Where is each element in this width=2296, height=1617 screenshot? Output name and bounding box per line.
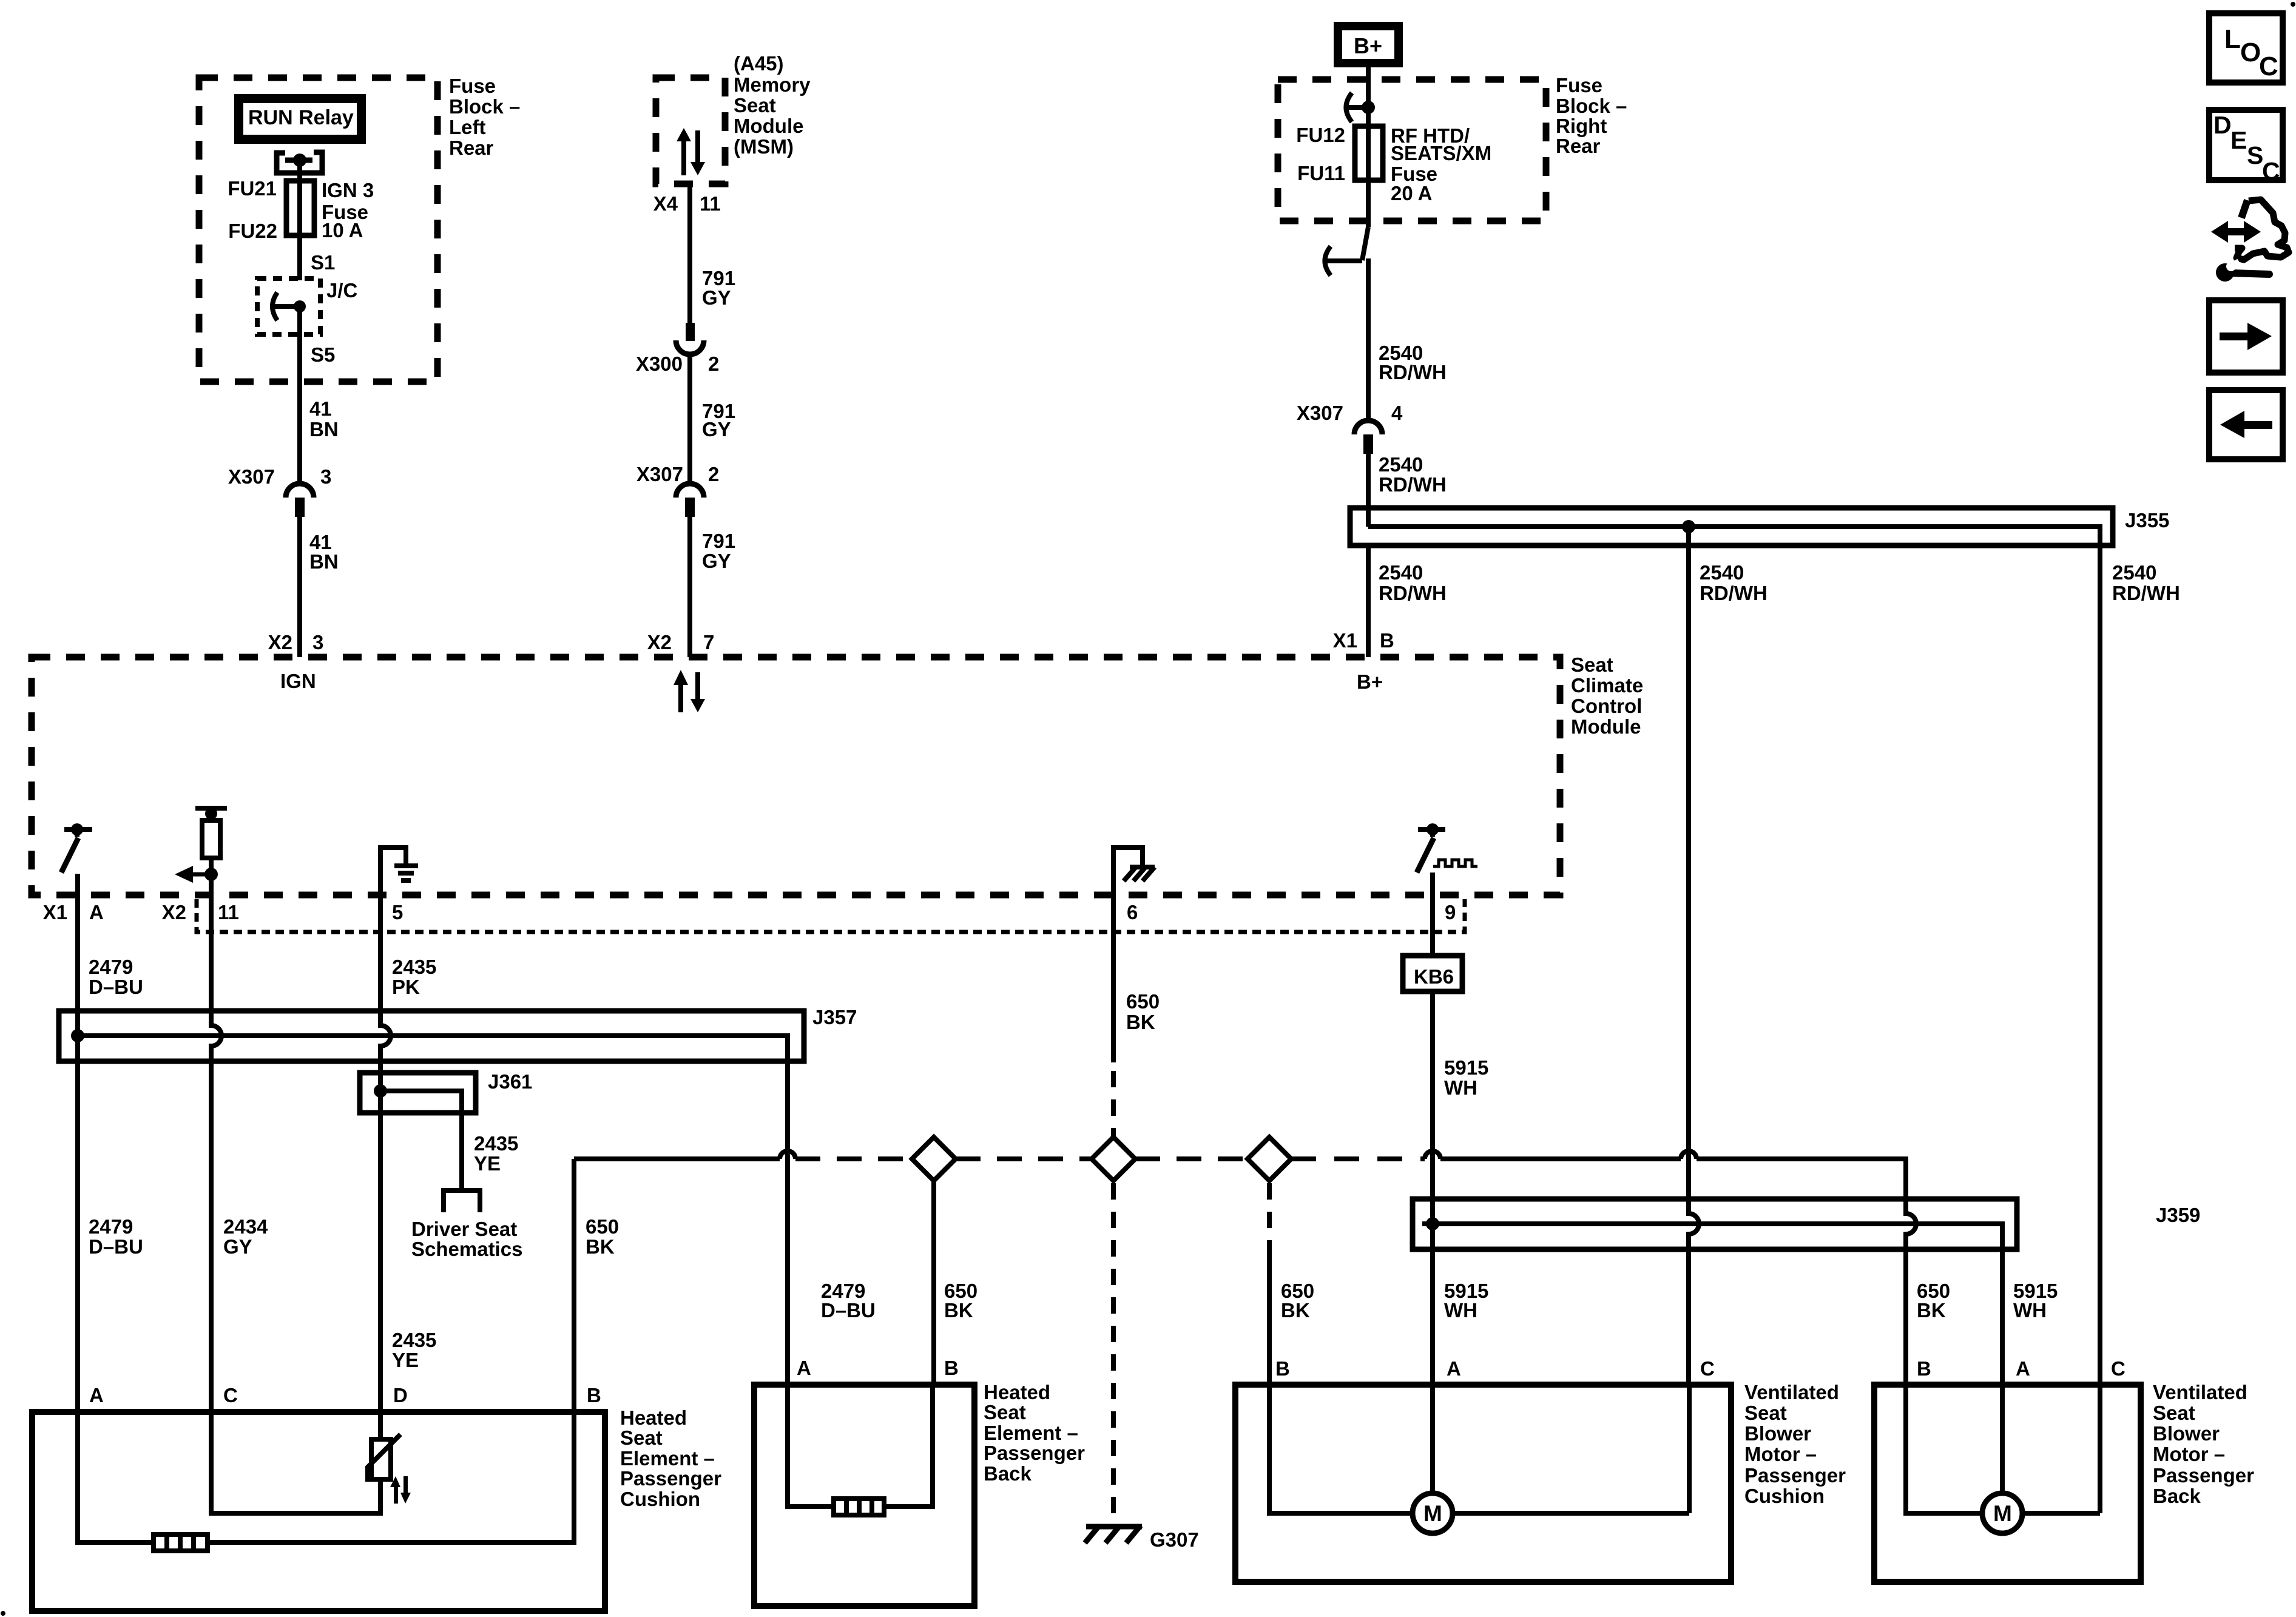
pin letters heated cushion — [89, 1384, 601, 1406]
label 650 BK ventilated cushion — [1281, 1280, 1314, 1322]
thermistor branch wires C to D — [211, 1412, 380, 1513]
svg-text:J357: J357 — [812, 1006, 857, 1028]
label 2434 GY — [223, 1215, 268, 1258]
switch pin X1 A inside module — [61, 823, 92, 873]
heater element passenger cushion — [154, 1534, 208, 1551]
dashed 650 BK line segment 2 — [956, 1156, 1092, 1161]
label 791 GY second — [702, 400, 735, 441]
left arrow icon box — [2209, 390, 2283, 459]
motor M ventilated cushion — [1413, 1493, 1453, 1533]
svg-text:X2: X2 — [647, 631, 672, 653]
ventilated seat blower motor passenger back box — [1874, 1385, 2141, 1582]
junction symbol inside J/C — [272, 292, 306, 320]
svg-text:B+: B+ — [1354, 33, 1382, 58]
svg-text:Back: Back — [984, 1462, 1032, 1485]
up/down arrows at thermistor — [390, 1476, 411, 1504]
label Ventilated Seat Blower Motor Passenger Back — [2153, 1381, 2254, 1507]
svg-text:C: C — [2111, 1357, 2125, 1380]
label 650 BK pin 6 — [1126, 990, 1160, 1033]
page corner mark top right — [2291, 2, 2295, 7]
svg-text:B: B — [944, 1357, 959, 1379]
junction dot J355 — [1682, 520, 1695, 533]
svg-text:2479: 2479 — [89, 956, 133, 978]
label 791 GY first — [702, 267, 735, 309]
wire 650 BK diamond 1 down — [931, 1181, 936, 1385]
svg-text:11: 11 — [700, 192, 721, 215]
svg-text:KB6: KB6 — [1414, 965, 1454, 988]
svg-text:WH: WH — [1444, 1299, 1477, 1322]
svg-text:Control: Control — [1571, 695, 1642, 717]
svg-text:Rear: Rear — [1556, 135, 1601, 157]
label 2540 RD/WH upper — [1379, 342, 1447, 383]
label X1 A bottom pin — [43, 901, 104, 923]
svg-text:Left: Left — [449, 116, 486, 138]
svg-text:D–BU: D–BU — [89, 976, 143, 998]
svg-text:YE: YE — [392, 1349, 419, 1371]
svg-text:GY: GY — [702, 550, 731, 572]
svg-text:Right: Right — [1556, 115, 1607, 137]
junction dot relay contact — [293, 154, 306, 167]
connector X307 pin 2 — [676, 484, 704, 517]
svg-text:GY: GY — [702, 286, 731, 309]
chassis ground pin 6 inside module — [1113, 848, 1155, 881]
splice pack J357 — [59, 1011, 804, 1061]
svg-text:J/C: J/C — [326, 279, 357, 302]
wire 650 BK pin 6 down solid — [1111, 895, 1116, 1062]
svg-text:J361: J361 — [488, 1070, 532, 1093]
dashed 650 BK line segment 4 — [1291, 1156, 1425, 1161]
label 2435 PK — [392, 956, 436, 998]
svg-text:WH: WH — [1444, 1076, 1477, 1099]
heated back internal wires — [788, 1385, 834, 1507]
pin letters ventilated cushion — [1275, 1357, 1715, 1380]
fuse block right rear dashed box — [1278, 79, 1546, 221]
svg-text:650: 650 — [586, 1215, 619, 1238]
svg-text:SEATS/XM: SEATS/XM — [1391, 142, 1491, 164]
label 650 BK heated back — [944, 1280, 977, 1322]
wire 791 GY third — [687, 517, 692, 657]
svg-text:Heated: Heated — [620, 1406, 687, 1429]
splice pack J355 — [1350, 508, 2113, 545]
wire pin 5 to module edge — [378, 845, 383, 895]
seat climate control module dashed box — [32, 657, 1560, 895]
heater element branch wire A — [78, 1412, 154, 1542]
svg-text:Module: Module — [734, 115, 803, 137]
wire 2540 RD/WH upper — [1366, 258, 1371, 419]
svg-text:RD/WH: RD/WH — [1379, 582, 1447, 604]
svg-text:650: 650 — [1126, 990, 1160, 1013]
svg-text:E: E — [2230, 126, 2247, 154]
label X2 3 pin — [268, 631, 324, 653]
svg-text:5: 5 — [392, 901, 403, 923]
svg-text:3: 3 — [320, 465, 331, 488]
connector X300 pin 2 — [676, 323, 704, 354]
svg-text:11: 11 — [218, 901, 239, 923]
svg-text:X307: X307 — [1297, 402, 1343, 424]
svg-text:S1: S1 — [311, 251, 335, 274]
svg-text:20 A: 20 A — [1391, 182, 1432, 204]
wire fuse to J/C — [297, 235, 302, 280]
junction dot J361 — [374, 1084, 387, 1098]
svg-text:PK: PK — [392, 976, 420, 998]
svg-text:X2: X2 — [268, 631, 292, 653]
svg-text:C: C — [2259, 52, 2278, 81]
wire pin 11 to module edge — [209, 874, 214, 895]
svg-text:A: A — [89, 901, 104, 923]
label 791 GY third — [702, 530, 735, 572]
label 2479 D-BU lower — [89, 1215, 143, 1258]
label Heated Seat Element Passenger Cushion — [620, 1406, 721, 1510]
wire 2540 RD/WH J355 to module X1 B — [1366, 545, 1371, 657]
label Seat Climate Control Module — [1571, 653, 1643, 738]
J361 bus wire — [380, 1091, 462, 1188]
svg-text:(MSM): (MSM) — [734, 135, 794, 158]
svg-text:M: M — [1423, 1501, 1442, 1526]
wire pin 9 to module edge — [1430, 873, 1435, 895]
label X307 3 — [228, 465, 331, 488]
ventilated back internal wires — [1906, 1385, 2100, 1513]
wire 2540 RD/WH to J355 — [1366, 454, 1371, 527]
svg-text:Schematics: Schematics — [411, 1238, 522, 1260]
svg-text:FU12: FU12 — [1296, 124, 1345, 146]
KB6 option box — [1403, 956, 1462, 991]
svg-text:D: D — [2213, 111, 2232, 139]
label Heated Seat Element Passenger Back — [984, 1381, 1085, 1485]
svg-text:Fuse: Fuse — [1556, 74, 1602, 96]
wire B+ down — [1366, 67, 1371, 227]
label X2 7 pin — [647, 631, 715, 653]
wire 650 BK diamond 3 down dashed then solid — [1267, 1183, 1272, 1385]
svg-text:Passenger: Passenger — [2153, 1464, 2254, 1487]
wire 791 GY second — [687, 354, 692, 484]
svg-text:Blower: Blower — [2153, 1422, 2220, 1445]
hop over 2479 wire — [780, 1151, 795, 1159]
wire 650 BK down to heated cushion pin B — [572, 1159, 576, 1412]
svg-text:Seat: Seat — [734, 94, 776, 116]
svg-text:4: 4 — [1391, 402, 1403, 424]
svg-text:C: C — [223, 1384, 238, 1406]
svg-text:Cushion: Cushion — [1744, 1485, 1825, 1507]
heater back wire to pin B — [884, 1385, 933, 1507]
svg-text:Seat: Seat — [984, 1401, 1026, 1423]
resistor pin X2 11 inside module — [195, 808, 227, 874]
svg-text:Memory: Memory — [734, 73, 811, 96]
svg-text:RD/WH: RD/WH — [1379, 473, 1447, 496]
svg-text:Block –: Block – — [1556, 95, 1627, 117]
svg-text:B: B — [1380, 629, 1394, 652]
svg-text:X4: X4 — [653, 192, 678, 215]
wire 2479 D-BU from J357 to heated back pin A — [785, 1061, 790, 1385]
connector X307 pin 3 — [286, 484, 314, 517]
svg-text:B: B — [587, 1384, 601, 1406]
svg-text:2540: 2540 — [1700, 561, 1744, 584]
off-page fork to driver seat schematics — [444, 1190, 480, 1212]
dashed 650 BK line segment 3 — [1135, 1156, 1248, 1161]
splice diamond 2 — [1092, 1137, 1135, 1181]
relay contact symbol — [277, 152, 322, 173]
wiring harness icon wrench — [2216, 262, 2269, 282]
wire relay to fuse — [297, 160, 302, 181]
svg-text:A: A — [797, 1357, 811, 1379]
svg-text:Module: Module — [1571, 715, 1641, 738]
label X1 B pin — [1333, 629, 1394, 652]
arrow tap at resistor — [175, 866, 218, 883]
right arrow icon box — [2209, 300, 2283, 373]
svg-text:D: D — [393, 1384, 408, 1406]
svg-text:Cushion: Cushion — [620, 1488, 700, 1510]
wiring harness icon connector outline — [2241, 200, 2247, 218]
wire 2540 RD/WH from J355 dot down with J359 hop — [1689, 527, 1699, 1385]
svg-text:X307: X307 — [228, 465, 275, 488]
svg-text:Element –: Element – — [620, 1447, 715, 1470]
svg-text:RD/WH: RD/WH — [2112, 582, 2180, 604]
memory seat module dashed box — [656, 78, 725, 184]
svg-text:GY: GY — [223, 1235, 252, 1258]
label X307 2 — [636, 463, 719, 485]
junction dot J357 — [71, 1029, 84, 1042]
label Driver Seat Schematics — [411, 1218, 522, 1260]
svg-text:Fuse: Fuse — [449, 75, 496, 97]
label IGN 3 Fuse 10 A — [322, 179, 374, 241]
label 2435 YE lower — [392, 1329, 436, 1371]
label X300 2 — [636, 353, 719, 375]
svg-text:A: A — [2016, 1357, 2030, 1380]
heater element wire to pin B — [208, 1412, 574, 1542]
J355 bus wire — [1368, 527, 2100, 545]
heated seat element passenger cushion box — [32, 1412, 605, 1611]
battery B+ box — [1334, 22, 1403, 67]
J359 bus wire — [1422, 1224, 2002, 1385]
J/C junction dashed box — [257, 279, 320, 334]
svg-text:9: 9 — [1445, 901, 1456, 923]
svg-text:BK: BK — [1281, 1299, 1310, 1322]
svg-text:FU21: FU21 — [228, 177, 277, 200]
svg-text:FU11: FU11 — [1297, 162, 1345, 184]
svg-text:A: A — [89, 1384, 104, 1406]
svg-text:C: C — [2262, 157, 2280, 185]
svg-text:WH: WH — [2013, 1299, 2047, 1322]
svg-text:A: A — [1447, 1357, 1461, 1380]
svg-text:5915: 5915 — [1444, 1056, 1488, 1079]
svg-text:2435: 2435 — [392, 1329, 436, 1351]
junction dot J359 — [1426, 1217, 1439, 1230]
wire 650 BK to ventilated back pin B — [1697, 1159, 1916, 1385]
label 2540 RD/WH below J355 — [1379, 561, 1447, 604]
fuse FU12/FU11 — [1355, 126, 1383, 180]
label 5915 WH upper — [1444, 1056, 1488, 1099]
svg-text:6: 6 — [1127, 901, 1138, 923]
dashed 650 BK line segment 1 — [795, 1156, 912, 1161]
X2 connector dotted bracket — [197, 899, 1465, 932]
splice diamond 3 — [1248, 1137, 1291, 1181]
svg-text:Ventilated: Ventilated — [1744, 1381, 1839, 1403]
wire pin A to module edge — [75, 874, 80, 895]
label 41 BN upper — [309, 397, 339, 441]
label 2540 RD/WH mid left — [1700, 561, 1768, 604]
svg-text:S5: S5 — [311, 343, 335, 366]
hop over 2540 wire — [1681, 1151, 1697, 1159]
connector X307 pin 4 — [1354, 420, 1382, 454]
splice pack J359 — [1413, 1199, 2017, 1249]
svg-text:Element –: Element – — [984, 1422, 1078, 1444]
svg-text:BK: BK — [1917, 1299, 1946, 1322]
svg-text:IGN 3: IGN 3 — [322, 179, 374, 201]
svg-text:RD/WH: RD/WH — [1379, 361, 1447, 383]
DESC icon box — [2209, 110, 2283, 185]
svg-text:C: C — [1700, 1357, 1715, 1380]
terminal clip upper — [1346, 93, 1376, 122]
svg-text:M: M — [1993, 1501, 2012, 1526]
svg-text:J355: J355 — [2125, 509, 2169, 532]
fuse block left rear dashed box — [199, 78, 437, 382]
label 2479 D-BU upper — [89, 956, 143, 998]
svg-text:D–BU: D–BU — [89, 1235, 143, 1258]
label (A45) Memory Seat Module (MSM) — [734, 52, 811, 158]
svg-text:FU22: FU22 — [228, 220, 277, 242]
label X307 4 — [1297, 402, 1403, 424]
svg-text:41: 41 — [309, 397, 332, 420]
svg-text:Seat: Seat — [620, 1426, 663, 1449]
svg-text:2435: 2435 — [474, 1132, 518, 1155]
heated seat element passenger back box — [754, 1385, 974, 1606]
label 2540 RD/WH mid right — [2112, 561, 2180, 604]
label X4 11 — [653, 192, 721, 215]
svg-text:RUN Relay: RUN Relay — [248, 106, 354, 129]
label Ventilated Seat Blower Motor Passenger Cushion — [1744, 1381, 1846, 1507]
svg-text:IGN: IGN — [280, 670, 316, 692]
svg-text:X307: X307 — [636, 463, 683, 485]
splice pack J361 — [360, 1073, 476, 1113]
svg-text:G307: G307 — [1150, 1528, 1199, 1551]
svg-text:X1: X1 — [43, 901, 67, 923]
wiring harness icon double arrow — [2211, 221, 2261, 243]
label 5915 WH ventilated back — [2013, 1280, 2058, 1322]
svg-text:2479: 2479 — [89, 1215, 133, 1238]
wire 650 BK pin 6 dashed — [1111, 1071, 1116, 1137]
motor M ventilated back — [1982, 1493, 2022, 1533]
svg-text:GY: GY — [702, 418, 731, 441]
svg-text:BK: BK — [586, 1235, 615, 1258]
svg-text:Passenger: Passenger — [1744, 1464, 1846, 1487]
up/down arrows inside MSM — [677, 128, 705, 175]
wire 2434 pin 11 down with J357 hop — [211, 895, 221, 1412]
svg-text:10 A: 10 A — [322, 219, 363, 241]
svg-text:2540: 2540 — [1379, 453, 1423, 476]
label 41 BN lower — [309, 531, 339, 573]
svg-text:BK: BK — [1126, 1011, 1155, 1033]
svg-text:J359: J359 — [2156, 1204, 2200, 1226]
relay K RUN Relay box — [234, 94, 366, 144]
label 650 BK ventilated back — [1917, 1280, 1950, 1322]
svg-text:Seat: Seat — [1571, 653, 1613, 676]
svg-text:2540: 2540 — [2112, 561, 2156, 584]
label 5915 WH lower at ventilated cushion — [1444, 1280, 1488, 1322]
svg-text:S: S — [2247, 141, 2263, 169]
thermistor sensor — [368, 1434, 400, 1482]
LOC icon box — [2209, 13, 2283, 83]
pin letters ventilated back — [1917, 1357, 2125, 1380]
svg-text:Climate: Climate — [1571, 674, 1643, 697]
svg-text:Passenger: Passenger — [620, 1467, 721, 1490]
page corner mark bottom left — [1, 1611, 5, 1616]
fuse FU21/FU22 IGN 3 Fuse 10A — [286, 181, 314, 235]
svg-text:Back: Back — [2153, 1485, 2201, 1507]
svg-text:2434: 2434 — [223, 1215, 268, 1238]
svg-text:B: B — [1275, 1357, 1290, 1380]
wire 41 BN lower segment — [297, 517, 302, 657]
wire 2540 RD/WH right from J355 to ventilated back pin C — [2098, 545, 2102, 1385]
svg-text:(A45): (A45) — [734, 52, 784, 75]
wire 650 BK solid right segment — [1440, 1156, 1681, 1161]
fuse block left rear label — [449, 75, 520, 159]
svg-text:BK: BK — [944, 1299, 973, 1322]
svg-text:3: 3 — [312, 631, 323, 653]
ventilated cushion internal wires — [1269, 1385, 1689, 1513]
label 2540 RD/WH above J355 — [1379, 453, 1447, 496]
ground symbol pin 5 inside module — [380, 848, 418, 880]
svg-text:Driver Seat: Driver Seat — [411, 1218, 517, 1240]
svg-text:2: 2 — [708, 353, 719, 375]
svg-text:BN: BN — [309, 418, 339, 441]
up/down arrows below X2 7 — [674, 670, 705, 712]
splice diamond 1 — [912, 1137, 956, 1181]
svg-text:7: 7 — [703, 631, 714, 653]
svg-text:B: B — [1917, 1357, 1931, 1380]
wire 5915 WH KB6 down to ventilated cushion pin A — [1430, 991, 1435, 1385]
terminal clip lower with jog — [1325, 227, 1369, 275]
svg-text:O: O — [2240, 38, 2261, 67]
hop over 5915 wire — [1425, 1151, 1440, 1159]
svg-text:BN: BN — [309, 550, 339, 573]
ground G307 — [1085, 1525, 1142, 1543]
svg-text:791: 791 — [702, 530, 735, 552]
svg-text:Motor –: Motor – — [2153, 1443, 2225, 1465]
svg-text:2540: 2540 — [1379, 561, 1423, 584]
label fuse block right rear — [1556, 74, 1627, 157]
svg-text:Seat: Seat — [2153, 1402, 2195, 1424]
svg-text:YE: YE — [474, 1152, 501, 1175]
wire 5915 WH pin 9 to KB6 — [1430, 895, 1435, 956]
svg-text:X1: X1 — [1333, 629, 1357, 652]
pin letters heated back — [797, 1357, 959, 1379]
svg-text:2: 2 — [708, 463, 719, 485]
svg-text:X300: X300 — [636, 353, 683, 375]
label 650 BK left — [586, 1215, 619, 1258]
svg-text:B+: B+ — [1357, 670, 1383, 693]
label X2 11 bottom pin — [162, 901, 239, 923]
svg-text:L: L — [2224, 24, 2241, 54]
svg-text:D–BU: D–BU — [821, 1299, 876, 1322]
label RF HTD/SEATS/XM Fuse 20 A — [1391, 124, 1491, 204]
label 2435 YE at J361 — [474, 1132, 518, 1175]
svg-text:Passenger: Passenger — [984, 1442, 1085, 1464]
ventilated seat blower motor passenger cushion box — [1235, 1385, 1731, 1582]
wire 2435 pin 5 down with J357 hop — [380, 895, 391, 1412]
svg-text:Ventilated: Ventilated — [2153, 1381, 2247, 1403]
wire 41 BN upper segment — [297, 306, 302, 484]
svg-text:X2: X2 — [162, 901, 186, 923]
wire 791 GY from MSM — [687, 184, 692, 323]
J357 bus wire — [78, 1036, 788, 1061]
svg-text:Motor –: Motor – — [1744, 1443, 1817, 1465]
wire 2479 D-BU pin A down — [75, 895, 80, 1412]
wire pin D to thermistor — [378, 1412, 383, 1439]
svg-text:Blower: Blower — [1744, 1422, 1811, 1445]
wire pin 6 to module edge — [1111, 845, 1116, 895]
heater element passenger back — [834, 1499, 884, 1515]
switch pin 9 with PWM inside module — [1417, 823, 1477, 873]
svg-text:Seat: Seat — [1744, 1402, 1787, 1424]
